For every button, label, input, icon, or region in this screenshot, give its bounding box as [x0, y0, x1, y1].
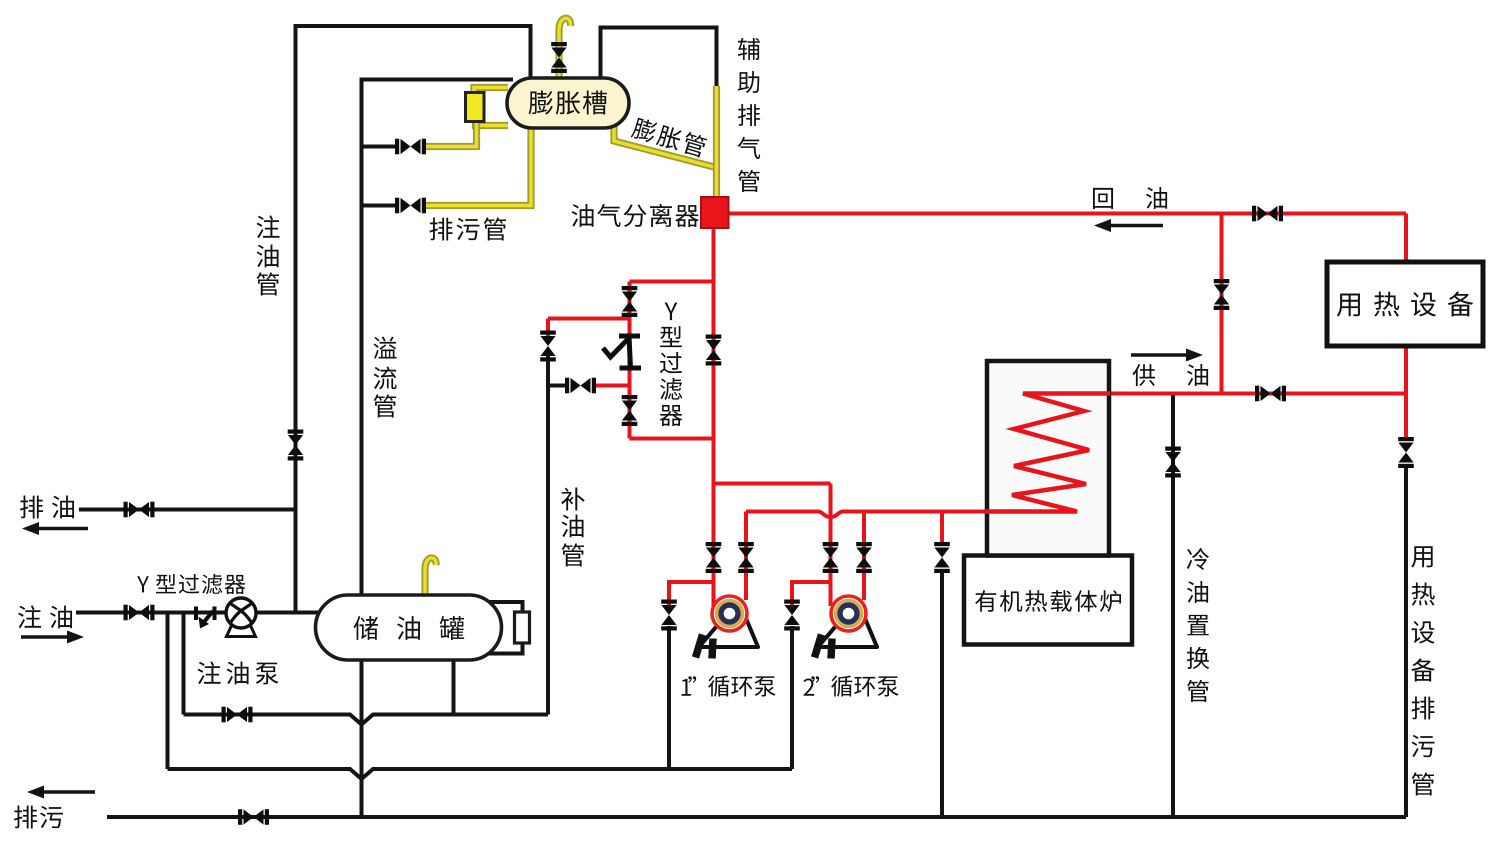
- wire: branch riser right: [182, 613, 186, 715]
- valve: supply-return bypass: [1214, 279, 1230, 310]
- pipe: return oil line: [727, 212, 1406, 216]
- wire: pump1 suction drop: [667, 626, 671, 769]
- wire: filter drain stub: [548, 384, 566, 388]
- wire: heat equipment blowdown drop: [1404, 466, 1408, 817]
- valve: pump1 inlet: [706, 542, 722, 573]
- valve: oil drain: [124, 502, 155, 518]
- furnace shell box: [964, 556, 1132, 645]
- pipe: pump discharge manifold with hop: [746, 512, 985, 518]
- arrow: supply oil direction: [1131, 349, 1203, 362]
- expansion tank: [507, 78, 629, 128]
- wire: make-up oil pipe: [546, 356, 550, 715]
- label: blowdown pipe: [430, 217, 506, 240]
- pipe: pump1 inlet drop: [712, 484, 716, 607]
- arrow: blowdown direction: [27, 786, 95, 799]
- pipe: pump1 suction corner: [669, 582, 714, 608]
- circulation pump 2: [815, 596, 878, 659]
- label: circulation pump 1: [682, 675, 776, 696]
- valve: heat equipment blowdown: [1398, 437, 1414, 468]
- furnace upper duct box: [987, 361, 1109, 556]
- pipe: auxiliary exhaust drop: [713, 86, 720, 198]
- label: cold oil replacement pipe: [1187, 548, 1209, 702]
- valve: filter drain: [565, 378, 596, 394]
- pipe: blowdown pipe lower run: [425, 126, 531, 206]
- pipe: gauge bottom connection: [476, 119, 509, 126]
- oil-gas separator: [701, 197, 729, 228]
- label: oil filling pipe: [257, 215, 280, 295]
- valve: pump1 discharge: [738, 542, 754, 573]
- label: auxiliary exhaust pipe: [738, 38, 760, 192]
- pipe: expansion pipe diagonal: [614, 126, 714, 167]
- label: expansion tank: [529, 91, 607, 115]
- pipe: storage tank vent with hook: [425, 558, 436, 597]
- circulation pump 1: [696, 596, 759, 659]
- label: heat equipment: [1337, 292, 1473, 317]
- wire: branch riser left: [166, 613, 170, 770]
- label: return oil: [1093, 187, 1167, 209]
- wire: storage gauge top stub: [488, 602, 523, 613]
- label: oil-gas separator: [572, 204, 699, 227]
- wire: oil-filling pipe riser and top-left frame: [296, 26, 531, 613]
- valve: pump2 discharge: [856, 542, 872, 573]
- pipe: pump2 inlet drop: [829, 484, 833, 607]
- valve: pump2 suction: [784, 600, 800, 631]
- wire: cold oil replacement pipe: [1171, 394, 1175, 818]
- expansion tank level gauge: [466, 93, 485, 122]
- label: supply oil: [1133, 364, 1209, 386]
- wire: furnace drain drop: [940, 570, 944, 817]
- pipe: pump2 discharge riser: [862, 512, 866, 601]
- pipe: make-up branch horizontal: [548, 317, 630, 321]
- valve: supply oil: [1255, 386, 1286, 402]
- pipe: furnace heating coil: [985, 394, 1110, 512]
- valve: manifold A: [222, 707, 253, 723]
- valve: make-up branch: [540, 331, 556, 362]
- pipe: make-up branch drop red: [546, 319, 550, 341]
- label: circulation pump 2: [804, 675, 899, 696]
- label: storage tank: [354, 616, 464, 640]
- valve: filter inlet: [622, 286, 638, 317]
- wire: blowdown stub upper: [362, 145, 397, 149]
- label: expansion pipe (rotated): [630, 116, 707, 158]
- pipe: separator down main: [712, 226, 716, 484]
- arrow: oil drain direction: [22, 522, 88, 535]
- valve: oil fill: [124, 605, 155, 621]
- pipe: supply oil line: [1023, 392, 1406, 396]
- label: oil filling pump: [198, 661, 279, 684]
- oil filling pump: [226, 598, 256, 637]
- arrow: return oil direction: [1094, 219, 1163, 232]
- label: fill oil: [18, 605, 72, 628]
- wire: overflow pipe frame: [362, 80, 514, 597]
- label: Y-type filter right: [660, 303, 683, 427]
- heat equipment box: [1327, 262, 1483, 346]
- storage tank sight glass: [515, 612, 530, 643]
- label: overflow pipe: [373, 337, 396, 418]
- pipe: bypass riser right: [1220, 214, 1224, 394]
- wire: bottom blowdown header: [107, 815, 1406, 819]
- label: make-up oil pipe: [561, 488, 585, 567]
- arrow: oil fill direction: [21, 631, 84, 644]
- valve: expansion vent: [551, 42, 567, 73]
- label: furnace: [975, 590, 1121, 612]
- label: heat equipment blowdown pipe: [1411, 546, 1435, 795]
- pipe: filter branch top: [630, 280, 714, 284]
- Y-strainer symbol right: [603, 336, 641, 368]
- pipe: gauge top connection: [474, 88, 508, 96]
- valve: pump2 inlet: [823, 542, 839, 573]
- valve: oil filling riser: [288, 430, 304, 461]
- wire: auxiliary vent top frame: [601, 28, 717, 89]
- wire: lower manifold A with hop: [184, 715, 549, 725]
- pipe: heat equipment inlet: [1404, 214, 1408, 264]
- valve: cold oil replacement: [1165, 447, 1181, 478]
- pipe: pump1 discharge riser: [744, 512, 748, 601]
- pipe: pump2 suction corner: [792, 582, 831, 608]
- pipe: blowdown pipe upper run: [425, 122, 477, 147]
- wire: storage tank outlet: [452, 658, 456, 715]
- pipe: filter branch bottom: [630, 437, 714, 441]
- pipe: heat equipment outlet: [1404, 345, 1408, 440]
- storage tank: [316, 595, 502, 660]
- wire: storage tank drain: [360, 660, 364, 817]
- wire: lower manifold B with hop: [168, 769, 793, 779]
- wire: storage gauge bottom stub: [488, 642, 523, 654]
- valve: return oil: [1252, 206, 1283, 222]
- wire: pump2 suction drop: [790, 626, 794, 769]
- label: drain oil: [20, 496, 74, 519]
- pipe: pump top manifold: [714, 482, 831, 486]
- wire: blowdown stub lower: [362, 204, 397, 208]
- valve: furnace drain: [934, 542, 950, 573]
- label: blowdown: [14, 806, 63, 829]
- valve: filter outlet: [622, 395, 638, 426]
- label: Y-type filter left: [137, 574, 245, 594]
- valve: bottom blowdown header: [238, 809, 269, 825]
- pipe: filter branch leg: [628, 282, 632, 439]
- valve: filter bypass: [706, 335, 722, 366]
- Y-strainer symbol on fill line: [196, 607, 215, 629]
- pipe: filter drain stub red: [594, 384, 630, 388]
- wire: oil fill line to storage tank: [76, 611, 318, 615]
- valve: pump1 suction: [661, 600, 677, 631]
- wire: oil drain line: [79, 508, 296, 512]
- valve: blowdown lower: [395, 198, 426, 214]
- pipe: expansion tank vent with hook: [559, 18, 571, 79]
- valve: blowdown upper: [395, 139, 426, 155]
- pipe: furnace drain red top: [940, 512, 944, 547]
